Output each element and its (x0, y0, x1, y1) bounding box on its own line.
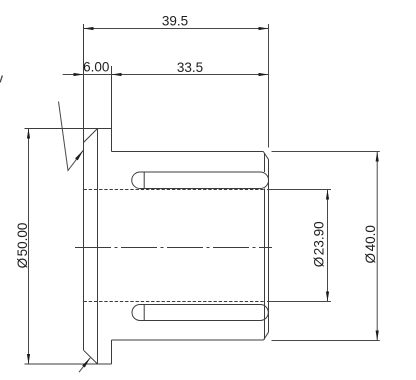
svg-text:6.00: 6.00 (83, 60, 109, 75)
svg-text:Ø40.0: Ø40.0 (363, 225, 378, 263)
svg-text:33.5: 33.5 (177, 60, 203, 75)
svg-text:Ø50.00: Ø50.00 (15, 223, 30, 269)
svg-text:39.5: 39.5 (162, 14, 188, 29)
svg-text:Ø23.90: Ø23.90 (311, 221, 326, 267)
